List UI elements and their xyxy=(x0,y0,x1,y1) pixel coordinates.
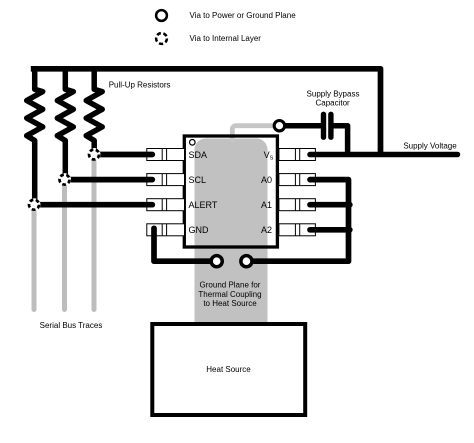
pad SCL (pin 2) xyxy=(147,174,185,186)
supply voltage rail from Vs pad to right edge xyxy=(310,152,458,158)
gray supply trace from plane up to via xyxy=(232,126,276,142)
svg-text:A1: A1 xyxy=(261,200,272,210)
svg-text:SCL: SCL xyxy=(189,175,207,185)
chip U1 outline xyxy=(184,136,277,247)
thermal via 1 to ground plane xyxy=(211,256,222,267)
svg-text:Ground Plane for: Ground Plane for xyxy=(200,281,261,290)
wire GND down and right to thermal via xyxy=(154,228,214,261)
wire from supply via to capacitor xyxy=(279,123,321,129)
pad A2 (pin 5) xyxy=(279,224,316,236)
pin 1 indicator circle xyxy=(190,140,196,146)
wire A2 to bus xyxy=(310,227,350,233)
pad GND (pin 4) xyxy=(147,224,185,236)
svg-text:SDA: SDA xyxy=(189,150,208,160)
svg-text:to Heat Source: to Heat Source xyxy=(203,299,257,308)
svg-text:Serial Bus Traces: Serial Bus Traces xyxy=(40,321,103,330)
svg-text:Via to Power or Ground Plane: Via to Power or Ground Plane xyxy=(190,11,297,20)
svg-text:Heat Source: Heat Source xyxy=(206,365,251,374)
resistor R3 (pull-up) xyxy=(86,66,102,150)
ground plane band for thermal coupling xyxy=(195,139,268,325)
svg-text:GND: GND xyxy=(189,225,210,235)
thermal via 2 to ground plane xyxy=(241,256,252,267)
serial bus trace 1 (gray) xyxy=(32,205,37,310)
svg-text:A2: A2 xyxy=(261,225,272,235)
via to power plane at supply bypass capacitor xyxy=(274,121,284,131)
heat source box xyxy=(152,324,305,415)
legend via to internal layer symbol xyxy=(156,33,167,44)
wire ALERT from via to pad xyxy=(34,202,152,208)
capacitor C1 left plate xyxy=(321,114,326,137)
via to internal layer at R2/SCL xyxy=(58,173,71,186)
wire SCL from via to pad xyxy=(65,177,153,183)
wire A0 to address bus and down to ground wire xyxy=(249,180,349,262)
svg-text:Thermal Coupling: Thermal Coupling xyxy=(198,290,261,299)
legend via to power or ground plane symbol xyxy=(156,10,167,21)
pad Vs (pin 8) xyxy=(279,149,316,161)
resistor R2 (pull-up) xyxy=(57,66,73,175)
svg-text:Via to Internal Layer: Via to Internal Layer xyxy=(190,34,262,43)
wire SDA from via to pad xyxy=(94,152,152,158)
chip body U1 white fill xyxy=(184,136,277,247)
svg-text:A0: A0 xyxy=(261,175,272,185)
wire A1 to bus xyxy=(310,202,350,208)
resistor R1 (pull-up) xyxy=(27,66,43,200)
serial bus trace 2 (gray) xyxy=(62,180,67,310)
via to internal layer at R1/ALERT xyxy=(28,198,41,211)
svg-text:Capacitor: Capacitor xyxy=(315,98,350,107)
svg-text:Pull-Up Resistors: Pull-Up Resistors xyxy=(109,81,171,90)
pad A0 (pin 7) xyxy=(279,174,316,186)
wire from capacitor down to supply rail xyxy=(331,126,348,155)
pad A1 (pin 6) xyxy=(279,199,316,211)
pad ALERT (pin 3) xyxy=(147,199,185,211)
svg-text:ALERT: ALERT xyxy=(189,200,218,210)
serial bus trace 3 (gray) xyxy=(92,155,97,310)
capacitor C1 right plate xyxy=(328,114,333,137)
pad SDA (pin 1) xyxy=(147,149,185,161)
svg-text:Supply Voltage: Supply Voltage xyxy=(403,142,457,151)
svg-text:Supply Bypass: Supply Bypass xyxy=(307,89,360,98)
via to internal layer at R3/SDA xyxy=(88,148,101,161)
top supply wire from resistors to right vertical drop xyxy=(31,69,381,155)
